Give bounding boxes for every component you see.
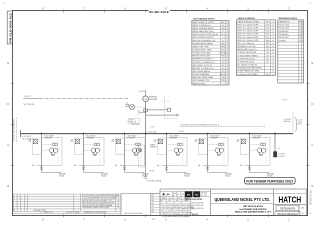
svg-text:BL.WC.SULE: BL.WC.SULE xyxy=(149,10,169,14)
svg-text:0.5: 0.5 xyxy=(222,59,224,61)
svg-text:NOTE 5: NOTE 5 xyxy=(149,170,155,172)
svg-text:BUSBAR RATING (AMPS): BUSBAR RATING (AMPS) xyxy=(193,42,214,45)
svg-text:52: 52 xyxy=(137,114,139,116)
svg-text:5P20: 5P20 xyxy=(221,56,225,58)
svg-text:XLPE: XLPE xyxy=(298,123,302,125)
svg-text:NOTE 1: NOTE 1 xyxy=(129,120,135,122)
svg-text:FDR 4 3C x 185mm2 XLPE: FDR 4 3C x 185mm2 XLPE xyxy=(237,34,259,36)
svg-text:415: 415 xyxy=(222,65,225,67)
svg-text:210m: 210m xyxy=(266,37,271,39)
svg-text:FEEDER: FEEDER xyxy=(253,137,261,139)
svg-text:PR-SLD-0001-5x2: PR-SLD-0001-5x2 xyxy=(8,13,12,43)
svg-text:LOT: LOT xyxy=(266,58,269,60)
svg-text:E: E xyxy=(7,61,9,65)
svg-text:B: B xyxy=(311,184,313,188)
svg-text:REFERENCE DWGS: REFERENCE DWGS xyxy=(279,18,298,20)
svg-text:1/1: 1/1 xyxy=(309,213,312,215)
svg-text:PARTICULARS OF SUPPLY: PARTICULARS OF SUPPLY xyxy=(193,21,216,24)
svg-text:PR-GA-0001: PR-GA-0001 xyxy=(279,30,289,33)
svg-text:FDR 3 3C x 185mm2 XLPE: FDR 3 3C x 185mm2 XLPE xyxy=(237,31,259,33)
svg-text:185mm: 185mm xyxy=(298,121,304,123)
svg-text:1: 1 xyxy=(222,83,223,85)
svg-text:FEEDER: FEEDER xyxy=(211,137,219,139)
svg-text:A3: A3 xyxy=(302,207,304,210)
svg-text:PR-SLD-0001-5x2: PR-SLD-0001-5x2 xyxy=(277,213,298,216)
svg-text:FDR 5 3C x 185mm2 XLPE: FDR 5 3C x 185mm2 XLPE xyxy=(237,37,259,39)
svg-text:6600/110: 6600/110 xyxy=(220,53,227,55)
svg-text:50: 50 xyxy=(222,31,224,33)
svg-text:SHORT CIRCUIT LEVEL (kA, 3s): SHORT CIRCUIT LEVEL (kA, 3s) xyxy=(193,33,219,36)
svg-text:LEGEND: LEGEND xyxy=(279,40,287,42)
svg-text:6.6: 6.6 xyxy=(222,25,224,27)
svg-text:60: 60 xyxy=(222,40,224,42)
svg-text:PR-SLD-0001-5x2: PR-SLD-0001-5x2 xyxy=(311,189,313,204)
svg-text:EXISTING QNI SUBSTATION: EXISTING QNI SUBSTATION xyxy=(12,118,15,141)
svg-text:PR-SLD-0002: PR-SLD-0002 xyxy=(279,28,290,30)
svg-text:3: 3 xyxy=(222,37,223,39)
svg-text:FEEDER: FEEDER xyxy=(150,147,157,149)
svg-text:CHECK: CHECK xyxy=(176,198,181,200)
svg-text:FOR TENDER PURPOSES ONLY: FOR TENDER PURPOSES ONLY xyxy=(246,180,294,184)
svg-text:LOT: LOT xyxy=(266,55,269,57)
svg-text:PR-SLD-0001 REF: PR-SLD-0001 REF xyxy=(191,202,203,204)
svg-text:TO EXIST: TO EXIST xyxy=(278,154,285,156)
svg-text:PROTECTION CLASS: PROTECTION CLASS xyxy=(193,55,211,58)
svg-text:FEEDER: FEEDER xyxy=(45,137,53,139)
svg-text:FEEDER: FEEDER xyxy=(128,137,136,139)
svg-text:LIC 1234: LIC 1234 xyxy=(201,195,207,197)
svg-text:ENCLOSURE RATING: ENCLOSURE RATING xyxy=(193,70,211,73)
svg-text:QUEENSLAND NICKEL PTY. LTD.: QUEENSLAND NICKEL PTY. LTD. xyxy=(214,197,270,202)
svg-text:2000: 2000 xyxy=(221,43,225,45)
svg-text:FDR 1 3C x 185mm2 XLPE: FDR 1 3C x 185mm2 XLPE xyxy=(237,24,259,26)
svg-text:DIMENSIONS IN MILLIMETRES: DIMENSIONS IN MILLIMETRES xyxy=(84,212,107,214)
svg-text:HATCH: HATCH xyxy=(279,194,302,204)
svg-text:DESIGN STANDARD: DESIGN STANDARD xyxy=(193,73,210,76)
svg-text:SUB No.1: SUB No.1 xyxy=(278,156,285,158)
svg-text:FROM EX: FROM EX xyxy=(139,91,146,93)
svg-text:110: 110 xyxy=(222,68,225,70)
svg-text:CABLE TYPE / SIZE: CABLE TYPE / SIZE xyxy=(193,45,210,48)
svg-text:TO EXIST: TO EXIST xyxy=(284,119,291,121)
svg-text:METERING CLASS ACCY: METERING CLASS ACCY xyxy=(193,58,214,61)
svg-text:XLPE: XLPE xyxy=(221,46,225,48)
svg-text:240m: 240m xyxy=(266,40,271,42)
svg-text:4 x 300mm2 XLPE CABLE: 4 x 300mm2 XLPE CABLE xyxy=(237,73,258,76)
svg-text:TX-001: TX-001 xyxy=(59,176,64,178)
svg-text:PR-SLD-0002 REF: PR-SLD-0002 REF xyxy=(191,205,203,207)
svg-text:DESIGN: DESIGN xyxy=(168,198,174,200)
svg-text:SINGLE LINE DIAGRAM SHEET 2 OF: SINGLE LINE DIAGRAM SHEET 2 OF 2 xyxy=(235,211,272,214)
svg-text:TO TIE: TO TIE xyxy=(150,127,155,129)
svg-text:TX-002: TX-002 xyxy=(101,176,106,178)
svg-text:RATED CURRENT (AMPS): RATED CURRENT (AMPS) xyxy=(193,27,214,30)
svg-text:LOT: LOT xyxy=(266,49,269,51)
svg-text:120m: 120m xyxy=(266,24,271,26)
svg-text:RATED FREQUENCY (Hz): RATED FREQUENCY (Hz) xyxy=(193,30,214,33)
svg-text:NOTE 4: NOTE 4 xyxy=(179,131,185,133)
svg-text:150m: 150m xyxy=(266,31,271,33)
svg-text:INCOMER 2 x 3C x 300: INCOMER 2 x 3C x 300 xyxy=(237,46,255,48)
svg-text:INCOMER: INCOMER xyxy=(149,99,158,101)
svg-text:VT RATIO (LINE-LINE): VT RATIO (LINE-LINE) xyxy=(193,52,211,55)
svg-text:M.T: M.T xyxy=(161,200,164,202)
svg-text:TIE 2 x 3C x 300mm2: TIE 2 x 3C x 300mm2 xyxy=(237,43,254,45)
svg-text:AUX SUPPLY VOLTS (V): AUX SUPPLY VOLTS (V) xyxy=(193,64,213,67)
svg-text:VT SECONDARY WIRING: VT SECONDARY WIRING xyxy=(237,54,258,57)
svg-text:B: B xyxy=(7,184,9,188)
svg-text:135m: 135m xyxy=(266,27,271,29)
svg-text:DRAWING No: DRAWING No xyxy=(279,20,290,23)
svg-text:LV SUPPLIES 35mm2: LV SUPPLIES 35mm2 xyxy=(237,61,254,63)
svg-text:SWITCHBOARD PARTIC.: SWITCHBOARD PARTIC. xyxy=(193,17,216,20)
svg-text:CABLE SCHEDULE DETAIL: CABLE SCHEDULE DETAIL xyxy=(237,20,259,23)
svg-text:TERMINATIONS HEATSHRINK: TERMINATIONS HEATSHRINK xyxy=(237,67,262,70)
svg-text:78726/4376: 78726/4376 xyxy=(280,206,296,210)
svg-text:G: G xyxy=(145,98,147,101)
svg-text:IP42: IP42 xyxy=(221,71,224,73)
svg-text:ALL CABLES TO AS1429: ALL CABLES TO AS1429 xyxy=(237,64,257,67)
svg-text:NO. PRELIM: NO. PRELIM xyxy=(24,104,35,106)
svg-text:110: 110 xyxy=(222,62,225,64)
svg-text:ISO: ISO xyxy=(195,195,199,197)
svg-text:LOT: LOT xyxy=(266,61,269,63)
svg-text:GLANDS BRASS DBL SEAL: GLANDS BRASS DBL SEAL xyxy=(237,70,259,73)
svg-text:HATCH ASSOCIATES: HATCH ASSOCIATES xyxy=(185,198,203,201)
svg-text:7. FOR LEGEND REFER DWG PR-LEG: 7. FOR LEGEND REFER DWG PR-LEG-0001. xyxy=(161,216,191,218)
svg-text:FDR 2 3C x 185mm2 XLPE: FDR 2 3C x 185mm2 XLPE xyxy=(237,27,259,29)
svg-text:A1: A1 xyxy=(177,193,179,196)
svg-text:NOTE 2: NOTE 2 xyxy=(24,96,31,98)
svg-text:REV: REV xyxy=(173,193,176,195)
svg-text:FAULT DURATION (SECS): FAULT DURATION (SECS) xyxy=(193,36,214,39)
svg-text:600/1: 600/1 xyxy=(221,49,225,51)
svg-text:BATTERY VOLTAGE (V dc): BATTERY VOLTAGE (V dc) xyxy=(193,67,215,70)
svg-text:E: E xyxy=(311,61,313,65)
svg-text:REFER NOTES: REFER NOTES xyxy=(193,83,206,85)
svg-text:CONTROL MULTICORE: CONTROL MULTICORE xyxy=(237,52,257,54)
svg-text:MRT RETICULATION: MRT RETICULATION xyxy=(243,205,263,208)
svg-text:IMPULSE WITHSTAND (kVp): IMPULSE WITHSTAND (kVp) xyxy=(193,39,216,42)
svg-text:QNI: QNI xyxy=(166,194,170,196)
svg-text:SUB No.2: SUB No.2 xyxy=(284,121,291,123)
svg-text:2x 300 XLPE: 2x 300 XLPE xyxy=(147,131,156,133)
svg-text:B: B xyxy=(300,31,301,33)
svg-text:TX-005: TX-005 xyxy=(225,176,230,178)
svg-text:SHT: SHT xyxy=(182,194,185,196)
svg-text:PR-SLD-0003 REF: PR-SLD-0003 REF xyxy=(191,208,203,210)
svg-text:CONTROL VOLTAGE (V dc): CONTROL VOLTAGE (V dc) xyxy=(193,61,215,64)
svg-text:DC SUPPLIES 16mm2: DC SUPPLIES 16mm2 xyxy=(237,58,255,60)
svg-text:FEEDER: FEEDER xyxy=(170,137,178,139)
svg-text:PR-SLD-0001: PR-SLD-0001 xyxy=(279,25,290,27)
svg-text:FDR 6 3C x 185mm2 XLPE: FDR 6 3C x 185mm2 XLPE xyxy=(237,40,259,42)
svg-text:CT RATIO (PROT / MET): CT RATIO (PROT / MET) xyxy=(193,48,213,51)
svg-text:R.K: R.K xyxy=(168,200,170,202)
svg-text:EXIST CB: EXIST CB xyxy=(129,121,136,123)
svg-text:CABLE SCHEDULE: CABLE SCHEDULE xyxy=(238,17,256,20)
svg-text:SWITCHGEAR TYPE: SWITCHGEAR TYPE xyxy=(193,79,210,82)
svg-text:PR-GA-0002: PR-GA-0002 xyxy=(279,33,289,36)
svg-text:N2: N2 xyxy=(278,148,280,150)
svg-text:5x2 PRIMARY SUB-STATION: 5x2 PRIMARY SUB-STATION xyxy=(240,208,267,211)
svg-text:BV: BV xyxy=(187,195,191,197)
svg-text:1250: 1250 xyxy=(221,28,225,30)
svg-text:LOT: LOT xyxy=(266,52,269,54)
svg-text:ES: ES xyxy=(126,102,128,104)
svg-text:RATED VOLTAGE (kV): RATED VOLTAGE (kV) xyxy=(193,24,211,27)
svg-text:MANUFACTURER / MAKE: MANUFACTURER / MAKE xyxy=(193,76,214,79)
svg-text:FEEDER: FEEDER xyxy=(87,137,95,139)
svg-text:EXISTING 6.6kV SWITCHBOARD TIE: EXISTING 6.6kV SWITCHBOARD TIE (NOTE 3) xyxy=(181,124,219,127)
svg-text:PR-WD-0001: PR-WD-0001 xyxy=(279,37,289,39)
svg-text:TX-004: TX-004 xyxy=(184,176,189,178)
svg-text:REF DWG PR-SLD-0001-5x1 SHEE: REF DWG PR-SLD-0001-5x1 SHEET 1 OF 2 xyxy=(82,200,112,202)
svg-text:25.0: 25.0 xyxy=(221,34,224,36)
svg-text:180m: 180m xyxy=(266,34,271,36)
svg-text:EARTH GRID 70mm2 Cu: EARTH GRID 70mm2 Cu xyxy=(237,48,256,51)
